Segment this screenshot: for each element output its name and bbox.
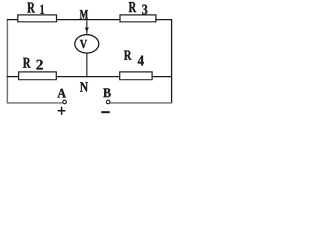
label R3 letter R (129, 2, 137, 12)
resistor R3 (120, 15, 156, 23)
wire voltmeter to N (86, 53, 88, 77)
minus sign (-) (101, 111, 109, 113)
label R2 (23, 58, 43, 70)
label R3 (129, 2, 148, 14)
wire M to voltmeter (86, 20, 88, 34)
wire top rail middle segment (R1 to R3 through node M) (56, 19, 120, 21)
wire top rail right segment (156, 19, 172, 21)
label R2 letter R (23, 58, 31, 68)
wire right vertical (B side riser) (171, 19, 173, 103)
wire bottom left (to terminal A) (7, 102, 63, 104)
label R4 subscript 4 (138, 56, 144, 66)
voltmeter letter V (80, 40, 87, 48)
resistor R1 (18, 15, 57, 23)
resistor R4 (120, 72, 152, 80)
wire middle rail center segment (R2 to R4 through node N) (56, 76, 120, 78)
terminal B circle (106, 100, 110, 104)
label R1 (27, 3, 44, 14)
resistor R2 (19, 72, 57, 80)
voltmeter V (meter U1) (75, 35, 99, 53)
label B (103, 88, 110, 97)
wire bottom right (terminal B to right riser) (110, 102, 172, 104)
voltmeter ellipse (75, 35, 99, 53)
wire left vertical (A side riser) (6, 20, 8, 104)
label R4 (124, 51, 144, 66)
wire top rail left segment (7, 19, 19, 21)
label R3 subscript 3 (142, 5, 147, 15)
wire middle rail left segment (7, 76, 19, 78)
arrow (current direction into voltmeter) (85, 28, 89, 32)
label R2 subscript 2 (36, 60, 42, 70)
terminal A circle (63, 100, 67, 104)
label R1 subscript 1 (40, 5, 44, 14)
label R1 letter R (27, 3, 35, 13)
node N label (80, 82, 88, 91)
wire middle rail right segment (152, 76, 172, 78)
label A (57, 89, 66, 98)
node M label (80, 10, 88, 19)
terminal B (101, 88, 110, 113)
label R4 letter R (124, 51, 132, 60)
plus sign (+) (58, 107, 66, 115)
terminal A (57, 89, 66, 115)
